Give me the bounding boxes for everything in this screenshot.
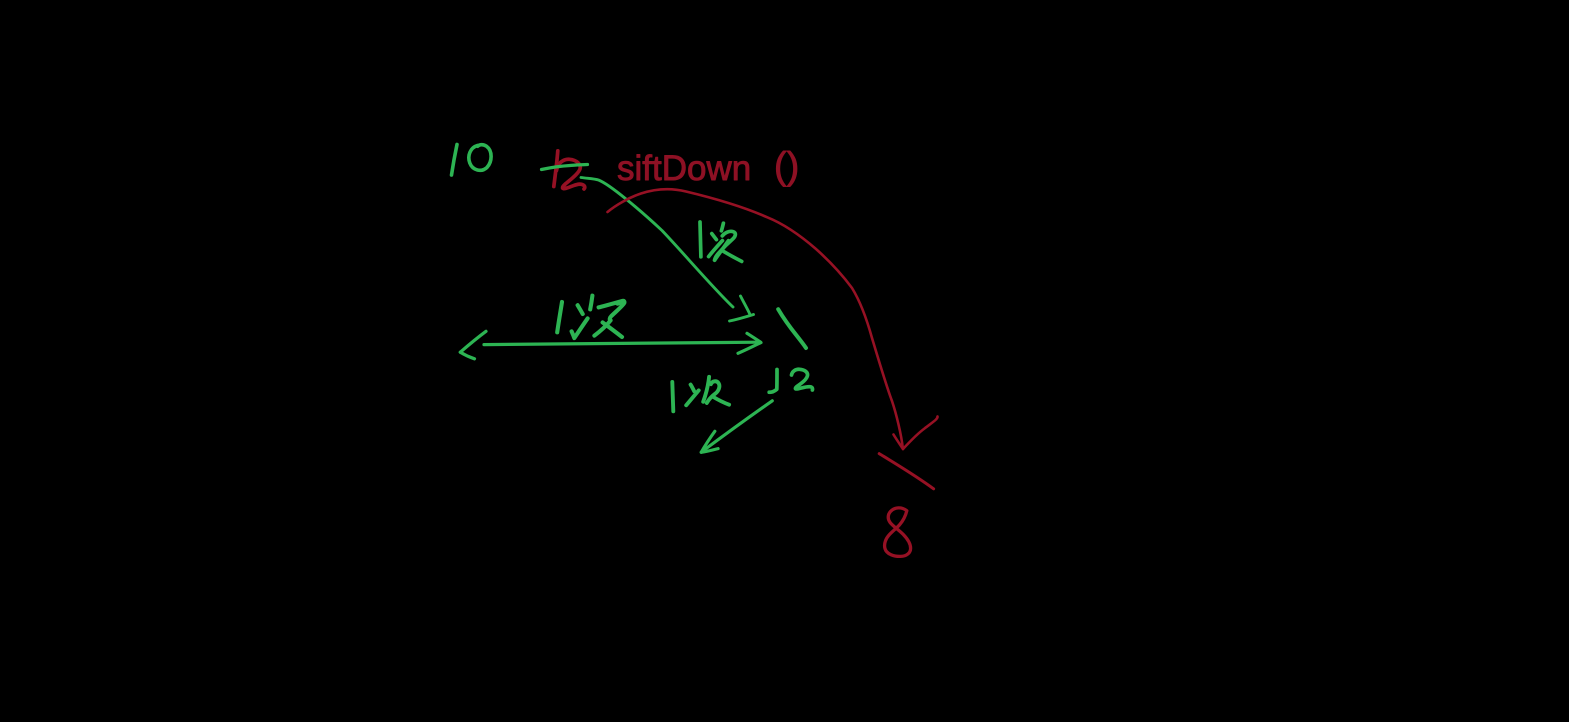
svg-text:(): ()	[774, 146, 799, 188]
red value 8	[885, 508, 911, 557]
green label 1次 (small, lower)	[672, 377, 729, 412]
green value 12 (moved down)	[769, 369, 812, 392]
node value 10 (green handwriting)	[452, 145, 492, 176]
green strikethrough over 12	[542, 165, 588, 170]
svg-text:siftDown: siftDown	[617, 149, 751, 188]
red slash (crossing out position)	[879, 454, 933, 489]
green tick mark (new position)	[778, 309, 806, 348]
green horizontal double arrow (swap, 1 time)	[460, 331, 761, 359]
green label 1次 (big, above horizontal arrow)	[557, 296, 624, 339]
green arrow down-left (move, 1 time)	[701, 401, 772, 453]
green label 1次 (upper, by diagonal arrow)	[700, 222, 742, 261]
node value 12 crossed out (red handwriting)	[554, 151, 585, 189]
green diagonal arrow (swap move, 1 time)	[581, 178, 754, 322]
red curved arrow (siftDown path to 8)	[608, 189, 938, 449]
